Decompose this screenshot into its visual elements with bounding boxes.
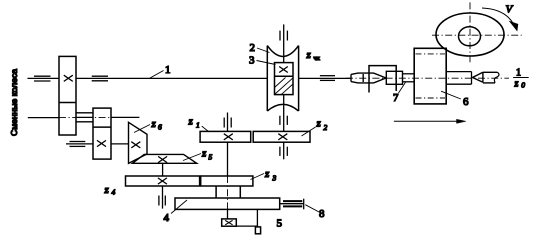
gear cross mark in block B xyxy=(97,140,106,146)
wire shaft from worm wheel to centre xyxy=(299,77,351,79)
gear cross mark in worm xyxy=(279,67,288,73)
gear cross mark in 5 xyxy=(225,220,232,224)
svg-text:6: 6 xyxy=(463,96,469,108)
svg-text:4: 4 xyxy=(164,212,170,224)
label 3 leader xyxy=(257,61,276,65)
housing inner dash-dot bands xyxy=(416,54,446,98)
label z1 leader xyxy=(202,126,209,132)
wire vertical shaft z1 to z3 xyxy=(227,142,229,176)
workpiece screw with break xyxy=(483,72,499,83)
wire shaft below z4 with bearing xyxy=(159,186,165,209)
gear z1 bar xyxy=(200,131,251,142)
wire worm shaft middle xyxy=(283,95,285,132)
svg-text:5: 5 xyxy=(277,218,283,230)
bearing support top of worm shaft xyxy=(280,31,287,41)
bearing support above z1 xyxy=(224,118,231,128)
label z2 xyxy=(316,118,328,133)
gear z2 bar xyxy=(253,131,310,142)
wire worm vertical shaft top xyxy=(283,24,285,62)
svg-text:z: z xyxy=(151,118,157,130)
svg-text:z: z xyxy=(188,116,194,128)
wheel horizontal axis dash-dot xyxy=(432,34,522,36)
label z_chk xyxy=(306,49,321,62)
svg-text:чк: чк xyxy=(314,55,321,62)
coupling lines between block A and block B xyxy=(76,113,93,122)
screw end support 8 xyxy=(280,199,304,210)
grinding wheel bore xyxy=(459,27,481,46)
headstock spindle housing 6 xyxy=(414,48,446,104)
grinding wheel xyxy=(436,13,504,56)
gear cross mark in z4 xyxy=(158,178,167,184)
svg-text:8: 8 xyxy=(319,208,325,220)
wire shaft I to worm wheel xyxy=(76,77,267,79)
gear z4 bar xyxy=(126,176,200,186)
wire vertical shaft from z5 to gear z4 xyxy=(162,163,164,176)
axis dash-dot through z3/nut xyxy=(227,176,229,209)
gear cross mark in z2 xyxy=(278,134,287,140)
wire shaft III segment with support xyxy=(66,143,93,145)
gearbox B block xyxy=(93,108,111,159)
feed direction arrow xyxy=(394,119,466,123)
slide bracket wire xyxy=(256,209,258,227)
label z4 xyxy=(104,184,116,197)
svg-text:7: 7 xyxy=(393,92,399,104)
label z6 xyxy=(151,118,163,132)
label z2 leader xyxy=(302,127,316,136)
gearbox A pulley block (change gear block) xyxy=(59,56,76,135)
label 1 leader xyxy=(150,71,164,79)
gear block 5 xyxy=(222,219,237,226)
wire vertical shaft to gear 5 xyxy=(227,209,229,219)
wire shaft II stub right of block B xyxy=(111,116,139,118)
svg-text:z: z xyxy=(316,118,322,130)
label z3 leader xyxy=(251,174,265,180)
svg-text:Сменные колеса: Сменные колеса xyxy=(9,69,19,136)
label 6 leader xyxy=(441,91,461,99)
svg-text:0: 0 xyxy=(521,81,525,90)
svg-text:z: z xyxy=(514,79,519,90)
worm hatching xyxy=(275,78,294,95)
wire shaft III to bevel gear xyxy=(111,143,129,145)
label 2 leader xyxy=(257,48,270,53)
bevel gear z6 xyxy=(129,122,148,163)
svg-text:V: V xyxy=(506,4,514,16)
svg-text:2: 2 xyxy=(324,123,328,132)
gear cross mark in z5 xyxy=(158,156,167,162)
svg-text:1: 1 xyxy=(165,64,171,76)
hub between z3 and nut 4 xyxy=(216,186,240,198)
svg-text:z: z xyxy=(306,49,312,61)
label 7 leader xyxy=(399,82,407,94)
label 4 leader xyxy=(171,200,187,214)
bearing support below z2 xyxy=(280,147,287,156)
wire stub to headstock 6 xyxy=(403,74,415,82)
wire shaft II left segment xyxy=(28,117,59,119)
worm wheel 2 rim (spool) xyxy=(267,46,298,111)
gear cross mark on shaft I in block A xyxy=(64,75,73,81)
wire worm shaft bottom xyxy=(283,142,285,159)
fraction denominator z0 xyxy=(514,79,526,90)
bearing support on that shaft xyxy=(320,76,335,81)
label 8 leader xyxy=(305,205,319,212)
bearing support below worm xyxy=(280,116,287,125)
driving centre (bullet) xyxy=(351,73,386,83)
label z1 xyxy=(188,116,200,130)
driver dog bracket 7 xyxy=(369,66,396,93)
wire from gear 5 to slide foot xyxy=(236,225,258,227)
worm 3 on vertical shaft xyxy=(275,63,294,95)
fraction 1/z0 bar xyxy=(513,77,529,79)
bearing support on shaft I (left) xyxy=(34,76,51,81)
svg-text:5: 5 xyxy=(209,153,213,162)
wire vertical shaft of z1/z3 upper xyxy=(227,113,229,132)
workpiece left journal xyxy=(386,71,402,84)
label z5 xyxy=(201,148,213,162)
tail centre cone xyxy=(473,72,483,82)
wire shaft I left segment xyxy=(28,77,60,79)
rotation arrow V arc xyxy=(482,8,518,31)
svg-text:2: 2 xyxy=(250,42,256,54)
svg-text:3: 3 xyxy=(272,174,277,183)
lead screw nut bar 4 xyxy=(175,198,280,209)
wire spindle right stub xyxy=(446,72,471,85)
wheel vertical axis dash-dot xyxy=(469,2,471,64)
svg-text:z: z xyxy=(264,168,270,180)
axis of shaft II (dash-dot) xyxy=(59,117,111,119)
axis dash-dot of work spindle xyxy=(346,77,509,79)
gear z3 bar xyxy=(201,176,253,186)
svg-text:z: z xyxy=(201,148,207,160)
label z3 xyxy=(264,168,277,183)
svg-text:4: 4 xyxy=(112,188,116,197)
bevel gear z5 xyxy=(132,154,196,163)
gear cross mark in z1 xyxy=(224,134,233,140)
svg-text:1: 1 xyxy=(196,121,200,130)
svg-text:z: z xyxy=(104,184,110,196)
svg-text:6: 6 xyxy=(158,123,162,132)
svg-text:1: 1 xyxy=(516,68,521,79)
bearing support on shaft III xyxy=(70,142,86,147)
label z5 leader xyxy=(183,154,201,161)
bearing support on shaft I (right of block A) xyxy=(92,76,108,81)
slide foot xyxy=(255,227,260,234)
svg-text:3: 3 xyxy=(249,55,255,67)
label z6 leader xyxy=(134,125,150,133)
gear cross mark in z6 xyxy=(131,142,140,148)
